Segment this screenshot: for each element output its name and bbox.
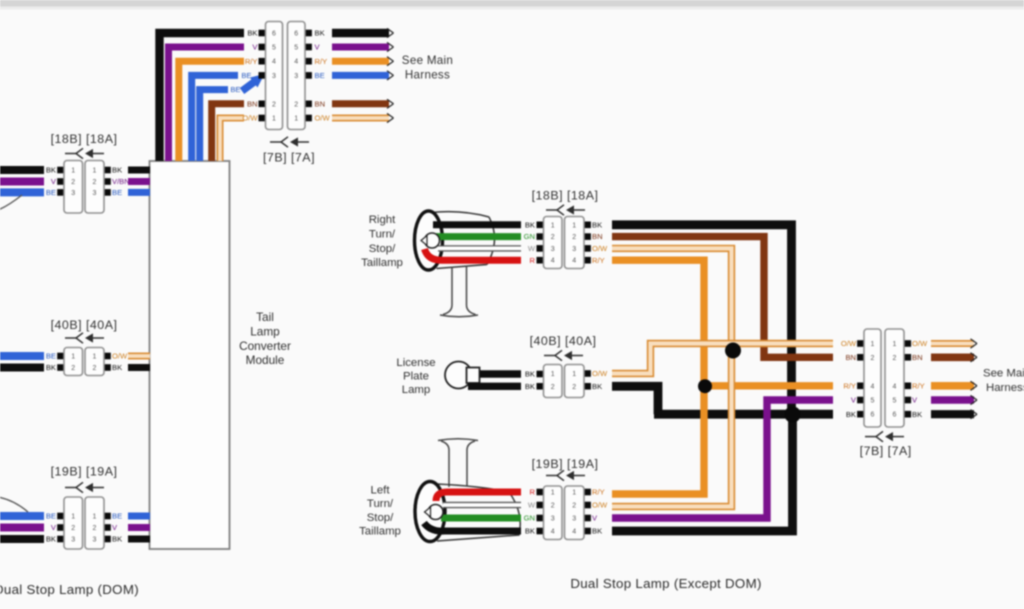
svg-text:Converter: Converter: [239, 339, 291, 353]
svg-text:O/W: O/W: [112, 352, 128, 361]
svg-text:3: 3: [551, 246, 555, 253]
svg-text:5: 5: [294, 45, 298, 52]
svg-text:6: 6: [871, 412, 875, 419]
svg-text:BK: BK: [525, 370, 535, 379]
svg-text:W: W: [528, 244, 536, 253]
svg-text:[40B] [40A]: [40B] [40A]: [530, 334, 597, 348]
svg-text:BE: BE: [46, 512, 56, 521]
svg-text:2: 2: [272, 101, 276, 108]
svg-text:[19B] [19A]: [19B] [19A]: [532, 457, 599, 471]
svg-text:BK: BK: [112, 363, 122, 372]
svg-text:R/Y: R/Y: [592, 256, 605, 265]
svg-text:BK: BK: [46, 535, 56, 544]
svg-text:BK: BK: [525, 527, 535, 536]
svg-text:Taillamp: Taillamp: [361, 257, 403, 269]
svg-text:Tail: Tail: [256, 310, 274, 324]
svg-text:1: 1: [893, 341, 897, 348]
svg-text:BE: BE: [46, 352, 56, 361]
svg-text:4: 4: [294, 59, 298, 66]
svg-text:1: 1: [572, 222, 576, 229]
svg-text:[7B] [7A]: [7B] [7A]: [860, 444, 912, 458]
svg-text:BE: BE: [241, 71, 251, 80]
svg-text:Harness: Harness: [405, 69, 450, 82]
svg-text:4: 4: [551, 258, 555, 265]
svg-text:O/W: O/W: [841, 339, 857, 348]
svg-text:3: 3: [272, 73, 276, 80]
svg-text:License: License: [396, 357, 435, 369]
svg-text:3: 3: [93, 190, 97, 197]
svg-text:1: 1: [71, 514, 75, 521]
svg-text:4: 4: [871, 383, 875, 390]
svg-text:2: 2: [294, 101, 298, 108]
svg-text:3: 3: [572, 246, 576, 253]
svg-text:2: 2: [71, 525, 75, 532]
svg-text:BN: BN: [845, 353, 856, 362]
svg-text:4: 4: [572, 258, 576, 265]
svg-text:5: 5: [272, 45, 276, 52]
svg-text:GN: GN: [524, 514, 535, 523]
svg-text:5: 5: [893, 398, 897, 405]
svg-text:3: 3: [551, 516, 555, 523]
svg-text:2: 2: [572, 234, 576, 241]
svg-text:BE: BE: [230, 85, 240, 94]
svg-text:2: 2: [551, 503, 555, 510]
svg-text:Dual Stop Lamp (DOM): Dual Stop Lamp (DOM): [0, 582, 139, 597]
svg-text:BE: BE: [112, 512, 122, 521]
svg-text:BK: BK: [846, 410, 856, 419]
svg-text:1: 1: [572, 490, 576, 497]
svg-text:5: 5: [871, 398, 875, 405]
svg-text:1: 1: [71, 168, 75, 175]
svg-text:2: 2: [893, 355, 897, 362]
svg-text:O/W: O/W: [315, 114, 331, 123]
svg-text:V/BN: V/BN: [112, 177, 130, 186]
svg-text:BE: BE: [315, 71, 325, 80]
svg-text:BE: BE: [112, 188, 122, 197]
svg-text:W: W: [528, 501, 536, 510]
svg-text:1: 1: [551, 490, 555, 497]
svg-text:Lamp: Lamp: [250, 324, 280, 338]
svg-text:BK: BK: [112, 535, 122, 544]
svg-text:2: 2: [572, 384, 576, 391]
svg-text:6: 6: [272, 31, 276, 38]
svg-text:BK: BK: [592, 527, 602, 536]
svg-text:3: 3: [572, 516, 576, 523]
svg-text:O/W: O/W: [592, 369, 608, 378]
svg-text:1: 1: [551, 371, 555, 378]
svg-text:BK: BK: [525, 382, 535, 391]
svg-text:6: 6: [294, 31, 298, 38]
svg-text:Stop/: Stop/: [369, 243, 396, 255]
svg-text:See Main: See Main: [402, 54, 453, 67]
svg-text:2: 2: [71, 179, 75, 186]
svg-text:2: 2: [551, 234, 555, 241]
svg-text:R/Y: R/Y: [912, 381, 925, 390]
svg-text:4: 4: [572, 529, 576, 536]
svg-text:O/W: O/W: [592, 501, 608, 510]
svg-text:BK: BK: [315, 29, 325, 38]
svg-text:R/Y: R/Y: [245, 57, 258, 66]
svg-text:Lamp: Lamp: [402, 384, 431, 396]
svg-text:R/Y: R/Y: [592, 488, 605, 497]
svg-text:[40B] [40A]: [40B] [40A]: [51, 318, 118, 332]
svg-text:3: 3: [71, 190, 75, 197]
svg-text:1: 1: [871, 341, 875, 348]
svg-text:BK: BK: [112, 166, 122, 175]
svg-text:2: 2: [871, 355, 875, 362]
svg-text:3: 3: [93, 537, 97, 544]
svg-text:Turn/: Turn/: [367, 498, 394, 510]
svg-text:BK: BK: [592, 220, 602, 229]
svg-text:R: R: [530, 256, 536, 265]
svg-text:2: 2: [93, 365, 97, 372]
svg-text:1: 1: [93, 354, 97, 361]
svg-text:BK: BK: [912, 410, 922, 419]
svg-text:GN: GN: [524, 232, 535, 241]
svg-text:[18B] [18A]: [18B] [18A]: [51, 132, 118, 146]
svg-text:Plate: Plate: [403, 371, 429, 383]
svg-text:BK: BK: [46, 363, 56, 372]
svg-text:BK: BK: [592, 382, 602, 391]
svg-text:Taillamp: Taillamp: [359, 526, 401, 538]
svg-text:1: 1: [93, 514, 97, 521]
svg-text:R/Y: R/Y: [843, 381, 856, 390]
svg-text:O/W: O/W: [592, 244, 608, 253]
svg-text:R: R: [530, 488, 536, 497]
svg-text:1: 1: [71, 354, 75, 361]
svg-text:2: 2: [93, 179, 97, 186]
svg-text:Stop/: Stop/: [367, 512, 394, 524]
svg-text:2: 2: [93, 525, 97, 532]
svg-text:4: 4: [551, 529, 555, 536]
svg-text:1: 1: [272, 116, 276, 123]
svg-text:2: 2: [551, 384, 555, 391]
svg-text:O/W: O/W: [242, 114, 258, 123]
svg-text:1: 1: [551, 222, 555, 229]
svg-text:BK: BK: [525, 220, 535, 229]
svg-text:BN: BN: [912, 353, 923, 362]
svg-text:BK: BK: [46, 166, 56, 175]
svg-text:[7B] [7A]: [7B] [7A]: [263, 151, 315, 165]
svg-text:6: 6: [893, 412, 897, 419]
svg-text:1: 1: [572, 371, 576, 378]
svg-text:Right: Right: [369, 214, 396, 226]
svg-text:O/W: O/W: [912, 339, 928, 348]
svg-text:Turn/: Turn/: [369, 228, 396, 240]
svg-text:4: 4: [893, 383, 897, 390]
svg-text:Harness: Harness: [986, 382, 1024, 394]
svg-text:3: 3: [294, 73, 298, 80]
svg-text:Module: Module: [246, 353, 285, 367]
svg-text:See Main: See Main: [983, 368, 1024, 380]
svg-text:R/Y: R/Y: [315, 57, 328, 66]
svg-text:[19B] [19A]: [19B] [19A]: [51, 465, 118, 479]
svg-text:Dual Stop Lamp (Except DOM): Dual Stop Lamp (Except DOM): [570, 576, 761, 591]
svg-text:BK: BK: [247, 29, 257, 38]
svg-text:[18B] [18A]: [18B] [18A]: [532, 189, 599, 203]
svg-text:2: 2: [71, 365, 75, 372]
svg-text:BN: BN: [592, 232, 603, 241]
svg-text:BN: BN: [247, 99, 258, 108]
svg-text:1: 1: [294, 116, 298, 123]
svg-text:4: 4: [272, 59, 276, 66]
svg-text:2: 2: [572, 503, 576, 510]
svg-text:1: 1: [93, 168, 97, 175]
svg-text:BE: BE: [46, 188, 56, 197]
svg-text:3: 3: [71, 537, 75, 544]
svg-text:BN: BN: [315, 99, 326, 108]
svg-text:Left: Left: [371, 485, 391, 497]
